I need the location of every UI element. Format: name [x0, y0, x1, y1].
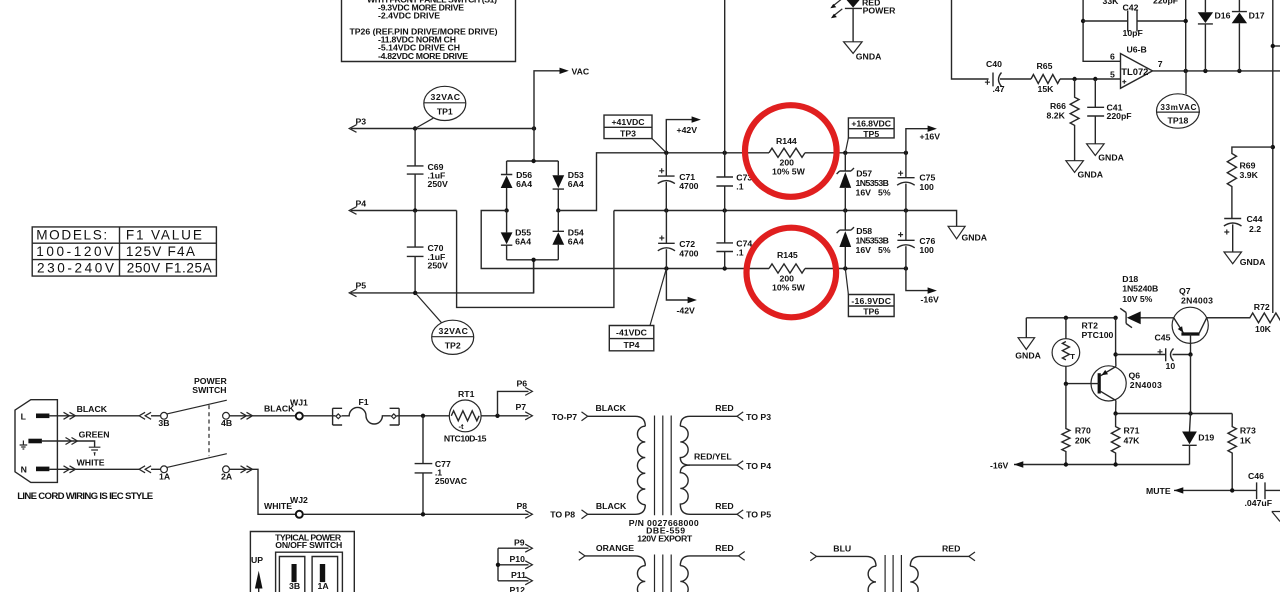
zener D18	[1120, 274, 1158, 328]
earth symbol	[20, 441, 28, 450]
capacitor C46	[1245, 471, 1273, 508]
svg-text:GNDA: GNDA	[1098, 152, 1124, 162]
wire GREEN row	[42, 441, 95, 447]
wire T3 secondary lead	[910, 556, 969, 566]
node C71 top	[664, 151, 668, 155]
svg-text:TP3: TP3	[620, 129, 636, 139]
svg-text:16V: 16V	[856, 187, 872, 197]
svg-text:4700: 4700	[679, 181, 698, 191]
capacitor C71	[658, 153, 699, 211]
wire +16V stub	[906, 129, 928, 153]
node Q7 base / C45 right	[1188, 352, 1192, 356]
svg-text:2N4003: 2N4003	[1181, 296, 1213, 306]
resistor R69	[1227, 147, 1273, 218]
jumper WJ1	[296, 413, 303, 420]
capacitor C41	[1087, 79, 1131, 144]
svg-text:2A: 2A	[221, 471, 233, 481]
node C41 top	[1093, 77, 1097, 81]
arrow +42V	[692, 116, 701, 122]
wire feedback to pin 6	[1083, 0, 1120, 61]
capacitor C44	[1224, 214, 1263, 252]
svg-text:-t: -t	[459, 422, 465, 431]
svg-text:5%: 5%	[878, 245, 891, 255]
svg-text:GNDA: GNDA	[1015, 351, 1041, 361]
svg-text:D58: D58	[856, 226, 872, 236]
transformer T3	[810, 543, 975, 592]
thermistor RT1 NTC10D-15	[444, 389, 487, 443]
typical power switch box	[250, 532, 354, 592]
wire -16V rail	[1014, 464, 1190, 466]
svg-text:10: 10	[1166, 361, 1176, 371]
wire bridge bottom rail	[507, 260, 559, 293]
wire +41V feed	[558, 153, 666, 211]
wire VAC stub	[534, 71, 560, 161]
node D57/D58 mid	[843, 208, 847, 212]
node C75/C76 mid	[904, 208, 908, 212]
wire WJ2 to P8	[303, 513, 529, 515]
node bridge bottom	[531, 258, 535, 262]
chevrons into 3B	[139, 412, 151, 419]
MODELS table box	[32, 227, 216, 276]
svg-text:125V F4A: 125V F4A	[126, 244, 196, 259]
arrow P11	[525, 577, 532, 585]
svg-text:D19: D19	[1198, 432, 1214, 442]
node R71 bottom	[1113, 462, 1117, 466]
wire Q6 collector row	[1116, 413, 1233, 415]
resistor R145	[769, 250, 806, 292]
svg-text:D16: D16	[1215, 11, 1231, 21]
wire P6 stub	[498, 391, 529, 415]
arrow -16V	[928, 287, 937, 293]
svg-text:C40: C40	[986, 59, 1002, 69]
svg-text:P10: P10	[510, 554, 526, 564]
svg-text:GREEN: GREEN	[79, 429, 110, 439]
svg-text:6A4: 6A4	[515, 236, 531, 246]
svg-text:RED: RED	[715, 501, 733, 511]
node bridge mid-right	[556, 208, 560, 212]
node C45 left	[1113, 352, 1117, 356]
box TP3 +41VDC	[604, 115, 666, 153]
balloon TP2 32VAC	[415, 293, 474, 355]
svg-text:1A: 1A	[159, 471, 171, 481]
svg-text:220pF: 220pF	[1107, 111, 1132, 121]
svg-text:3B: 3B	[158, 418, 169, 428]
wire -16V stub	[906, 269, 928, 291]
node R66 top	[1072, 77, 1076, 81]
transistor Q6 2N4003	[1066, 366, 1162, 414]
node C76 bottom	[904, 266, 908, 270]
thermistor RT2 PTC100	[1052, 318, 1113, 384]
T2 secondary winding	[680, 566, 688, 592]
svg-text:3.9K: 3.9K	[1240, 170, 1259, 180]
contact 3B	[161, 412, 168, 419]
diode D56	[501, 161, 533, 211]
svg-text:250VAC: 250VAC	[435, 476, 468, 486]
zener D58	[837, 211, 891, 269]
diode D17	[1232, 0, 1265, 71]
switch link dashed	[208, 405, 210, 456]
svg-text:RED: RED	[715, 543, 733, 553]
svg-text:BLU: BLU	[833, 543, 851, 553]
wire C42 left	[1083, 20, 1128, 22]
svg-text:TP6: TP6	[863, 307, 879, 317]
svg-text:250V: 250V	[428, 179, 448, 189]
wire T1 primary top lead	[588, 416, 646, 426]
svg-text:TO P8: TO P8	[550, 510, 575, 520]
svg-text:-2.4VDC DRIVE: -2.4VDC DRIVE	[378, 11, 440, 21]
node output/TP18	[1184, 69, 1188, 73]
svg-text:GNDA: GNDA	[1078, 169, 1104, 179]
wire 4B out	[229, 415, 295, 417]
svg-text:6A4: 6A4	[568, 179, 584, 189]
capacitor C74	[716, 211, 752, 269]
wire 0V mid rail	[614, 211, 957, 227]
wire 3B stub	[151, 415, 161, 417]
svg-text:D18: D18	[1122, 274, 1138, 284]
svg-text:32VAC: 32VAC	[438, 326, 468, 336]
wire right edge vertical	[1272, 0, 1274, 313]
wire WHITE row left	[49, 468, 139, 470]
svg-text:VAC: VAC	[572, 66, 590, 76]
node P10	[496, 563, 500, 567]
svg-text:10K: 10K	[1255, 324, 1272, 334]
svg-text:R73: R73	[1240, 426, 1256, 436]
resistor R71	[1111, 414, 1140, 465]
wire Q7 row rail	[1026, 317, 1250, 319]
wire tap RED/YEL	[690, 464, 737, 466]
svg-text:P12: P12	[510, 585, 526, 592]
arrow T2 secondary	[739, 552, 745, 561]
svg-text:220pF: 220pF	[1153, 0, 1178, 5]
svg-text:6: 6	[1110, 51, 1115, 61]
IEC pin N	[36, 467, 49, 472]
svg-text:TP2: TP2	[445, 341, 461, 351]
wire top feed C73 column	[724, 0, 726, 153]
svg-text:32VAC: 32VAC	[431, 92, 461, 102]
svg-text:10pF: 10pF	[1123, 28, 1143, 38]
wire P9-P11 tree	[498, 548, 529, 581]
node output/D16	[1203, 69, 1207, 73]
arrow T2 primary	[579, 552, 585, 561]
ground GNDA mid rail	[948, 226, 988, 242]
capacitor C73	[716, 153, 752, 211]
op-amp U6-B TL072	[1121, 44, 1163, 88]
wire 2A out jog down	[229, 469, 295, 514]
jumper WJ2	[296, 511, 303, 518]
node R73 bottom	[1230, 488, 1234, 492]
chevrons 2A out	[241, 466, 253, 473]
wire T1 secondary top lead	[680, 416, 737, 426]
svg-text:C42: C42	[1123, 2, 1139, 12]
svg-text:MUTE: MUTE	[1146, 486, 1171, 496]
T1 secondary upper winding	[680, 426, 690, 465]
svg-text:.1: .1	[736, 182, 743, 192]
arrow TO P5	[737, 510, 743, 519]
arrow TO P3	[737, 412, 743, 421]
resistor R72	[1207, 302, 1280, 334]
svg-text:L: L	[21, 411, 27, 421]
fuse F1	[333, 397, 400, 425]
diode D55	[501, 211, 532, 260]
svg-text:R145: R145	[777, 250, 798, 260]
diode D16	[1198, 0, 1231, 71]
T3 secondary winding	[910, 566, 918, 592]
node C74 bottom	[723, 266, 727, 270]
box TP4 -41VDC	[609, 269, 666, 351]
svg-text:2.2: 2.2	[1249, 224, 1261, 234]
capacitor C75	[897, 153, 935, 211]
svg-text:10% 5W: 10% 5W	[772, 282, 806, 292]
svg-text:3B: 3B	[289, 581, 300, 591]
svg-text:ORANGE: ORANGE	[596, 543, 634, 553]
svg-text:UP: UP	[251, 555, 263, 565]
svg-text:47K: 47K	[1124, 436, 1141, 446]
node D19 top	[1188, 411, 1192, 415]
chevrons into 1A	[139, 466, 151, 473]
svg-text:GNDA: GNDA	[962, 233, 988, 243]
svg-text:P4: P4	[356, 198, 367, 208]
wire C45 row	[1116, 354, 1166, 356]
svg-text:TP18: TP18	[1168, 116, 1189, 126]
node feedback/C42	[1081, 19, 1085, 23]
svg-text:F1: F1	[359, 397, 369, 407]
svg-text:R71: R71	[1124, 426, 1140, 436]
svg-text:.1: .1	[736, 248, 743, 258]
svg-text:U6-B: U6-B	[1127, 44, 1147, 54]
svg-text:BLACK: BLACK	[596, 501, 627, 511]
wire C40 feed from top	[952, 0, 989, 79]
arrow MUTE	[1174, 487, 1183, 493]
wire T2 secondary lead	[680, 556, 738, 566]
svg-text:120V EXPORT: 120V EXPORT	[637, 534, 693, 544]
capacitor C42	[1123, 2, 1186, 38]
node D18 left	[1113, 316, 1117, 320]
contact 2A	[223, 466, 230, 473]
svg-text:+16V: +16V	[920, 131, 941, 141]
node C77 bottom	[421, 512, 425, 516]
wire 1A stub	[151, 468, 161, 470]
svg-text:20K: 20K	[1075, 436, 1092, 446]
wire T1 primary bottom lead	[588, 505, 646, 515]
node RT2 top	[1064, 316, 1068, 320]
svg-text:P8: P8	[517, 501, 528, 511]
svg-text:P7: P7	[516, 402, 527, 412]
wire RT1 to P7	[481, 415, 528, 417]
arrow T1 primary top	[582, 412, 588, 421]
svg-text:RED: RED	[942, 543, 960, 553]
node D58 bottom	[843, 266, 847, 270]
svg-text:WJ1: WJ1	[290, 398, 308, 408]
svg-text:100: 100	[919, 245, 934, 255]
svg-text:P9: P9	[514, 538, 525, 548]
red circle around R145	[747, 228, 837, 318]
arrow TO P4	[737, 461, 743, 470]
svg-text:C44: C44	[1247, 214, 1263, 224]
capacitor C72	[658, 211, 699, 269]
svg-text:D17: D17	[1249, 11, 1265, 21]
resistor R70	[1062, 384, 1092, 465]
svg-text:P11: P11	[511, 570, 526, 580]
T1 secondary lower winding	[680, 465, 737, 514]
svg-text:-41VDC: -41VDC	[616, 327, 648, 337]
svg-text:33mVAC: 33mVAC	[1160, 103, 1196, 112]
svg-text:R70: R70	[1075, 426, 1091, 436]
svg-text:N: N	[21, 464, 27, 474]
svg-text:WJ2: WJ2	[290, 495, 308, 505]
node D57 top	[843, 151, 847, 155]
node P5/C70 junction	[413, 291, 417, 295]
capacitor C45	[1155, 333, 1191, 371]
T3 core	[885, 555, 901, 592]
svg-text:C45: C45	[1155, 333, 1171, 343]
node R70 bottom	[1064, 462, 1068, 466]
wire BLACK row left	[49, 415, 139, 417]
svg-text:GNDA: GNDA	[856, 52, 882, 62]
svg-text:1A: 1A	[318, 581, 330, 591]
diode D54	[552, 211, 584, 260]
box TP6 -16.9VDC	[845, 269, 894, 317]
arrow P5	[349, 289, 356, 297]
arrow P10	[525, 561, 532, 569]
node bridge top	[531, 159, 535, 163]
svg-text:250V: 250V	[428, 260, 448, 270]
wire P4 detour to 0V rail	[457, 211, 614, 308]
arrow T1 primary bottom	[582, 510, 588, 519]
node C75 top	[904, 151, 908, 155]
ground GNDA below C44	[1224, 252, 1266, 267]
svg-text:16V: 16V	[856, 245, 872, 255]
node C42 right	[1184, 19, 1188, 23]
svg-text:7: 7	[1158, 59, 1163, 69]
capacitor C77	[415, 416, 468, 515]
svg-text:BLACK: BLACK	[596, 403, 627, 413]
svg-text:250V F1.25A: 250V F1.25A	[127, 260, 213, 275]
wire WJ1 to fuse	[303, 415, 336, 417]
chevrons WHITE out	[64, 466, 76, 473]
contact 4B	[223, 412, 230, 419]
svg-text:8.2K: 8.2K	[1047, 110, 1066, 120]
wire bridge top rail	[507, 160, 559, 162]
svg-text:15K: 15K	[1038, 84, 1055, 94]
zener D57	[837, 153, 891, 211]
svg-text:RED: RED	[715, 403, 733, 413]
wire P3	[351, 128, 534, 130]
earth ground GREEN	[89, 447, 101, 455]
svg-text:P3: P3	[356, 117, 367, 127]
svg-text:33K: 33K	[1103, 0, 1120, 6]
svg-text:Q6: Q6	[1129, 371, 1141, 381]
IEC pin E	[28, 439, 42, 444]
node C72 bottom	[664, 266, 668, 270]
arrow -42V	[688, 297, 697, 303]
svg-text:P6: P6	[517, 378, 528, 388]
svg-text:ON/OFF SWITCH: ON/OFF SWITCH	[275, 540, 342, 550]
node P6/P7	[495, 414, 499, 418]
capacitor C70	[407, 211, 448, 293]
svg-text:.47: .47	[993, 84, 1005, 94]
wire -41V rail	[666, 268, 906, 270]
arrow P7	[525, 412, 532, 420]
svg-text:PTC100: PTC100	[1082, 330, 1114, 340]
chevrons 4B out	[241, 412, 253, 419]
ground GNDA left of RT2	[1015, 318, 1041, 361]
svg-text:RED/YEL: RED/YEL	[694, 452, 732, 462]
svg-text:1N5353B: 1N5353B	[856, 178, 889, 188]
svg-text:RT2: RT2	[1082, 320, 1099, 330]
svg-text:-16V: -16V	[990, 461, 1009, 471]
svg-text:SWITCH: SWITCH	[192, 385, 226, 395]
transistor Q7 2N4003	[1172, 286, 1213, 355]
node C71/C72 mid	[664, 208, 668, 212]
svg-text:BLACK: BLACK	[77, 404, 108, 414]
svg-text:TL072: TL072	[1121, 66, 1148, 77]
node R69 branch	[1271, 145, 1275, 149]
resistor R73	[1228, 414, 1256, 491]
svg-text:POWER: POWER	[863, 6, 897, 16]
box TP5 +16.8VDC	[845, 118, 894, 153]
balloon TP1 32VAC	[415, 86, 466, 128]
arrow T3 primary	[810, 552, 816, 561]
node output/D17	[1237, 69, 1241, 73]
svg-text:4700: 4700	[679, 248, 698, 258]
wire -41V feed	[481, 211, 666, 269]
resistor R144	[769, 136, 806, 176]
wire R65 to opamp pin5	[1060, 78, 1121, 80]
node C73/C74 mid	[723, 208, 727, 212]
svg-text:+42V: +42V	[677, 125, 698, 135]
svg-text:NTC10D-15: NTC10D-15	[444, 433, 487, 443]
svg-text:Q7: Q7	[1179, 286, 1191, 296]
node P4/C70 junction	[413, 208, 417, 212]
wire C42 junction vertical	[1185, 0, 1187, 71]
svg-text:C46: C46	[1248, 471, 1264, 481]
wire Q7 base to D19	[1190, 355, 1192, 414]
svg-text:D57: D57	[856, 168, 872, 178]
svg-text:T: T	[1070, 352, 1075, 361]
svg-text:R144: R144	[776, 136, 797, 146]
resistor R66	[1047, 79, 1080, 161]
switch blade 1A-2A	[167, 454, 227, 468]
svg-text:-16.9VDC: -16.9VDC	[851, 296, 891, 306]
svg-text:GNDA: GNDA	[1240, 257, 1266, 267]
wire fuse to C77 node	[397, 415, 450, 417]
transformer T1	[550, 403, 771, 543]
svg-text:2N4003: 2N4003	[1130, 380, 1162, 390]
T1 core	[655, 416, 672, 516]
capacitor C76	[897, 211, 935, 269]
capacitor C40	[985, 59, 1031, 94]
svg-text:TO-P7: TO-P7	[552, 412, 578, 422]
wire +41V rail	[666, 152, 906, 154]
svg-text:WHITE: WHITE	[77, 458, 105, 468]
svg-text:F1 VALUE: F1 VALUE	[126, 227, 202, 242]
ground GNDA below C41	[1087, 144, 1125, 163]
node C77 top	[421, 414, 425, 418]
T3 primary winding	[868, 566, 876, 592]
svg-text:TO P5: TO P5	[746, 510, 771, 520]
resistor R65	[1031, 61, 1060, 94]
node P3/C69 junction	[413, 126, 417, 130]
capacitor C69	[407, 129, 448, 211]
node bridge mid-left	[504, 208, 508, 212]
svg-text:+41VDC: +41VDC	[611, 117, 645, 127]
node P3/VAC junction	[532, 126, 536, 130]
wire T2 primary lead	[585, 556, 645, 566]
svg-text:4B: 4B	[221, 418, 232, 428]
diode D19	[1182, 414, 1214, 465]
svg-text:TP4: TP4	[624, 340, 640, 350]
svg-text:R72: R72	[1254, 302, 1270, 312]
